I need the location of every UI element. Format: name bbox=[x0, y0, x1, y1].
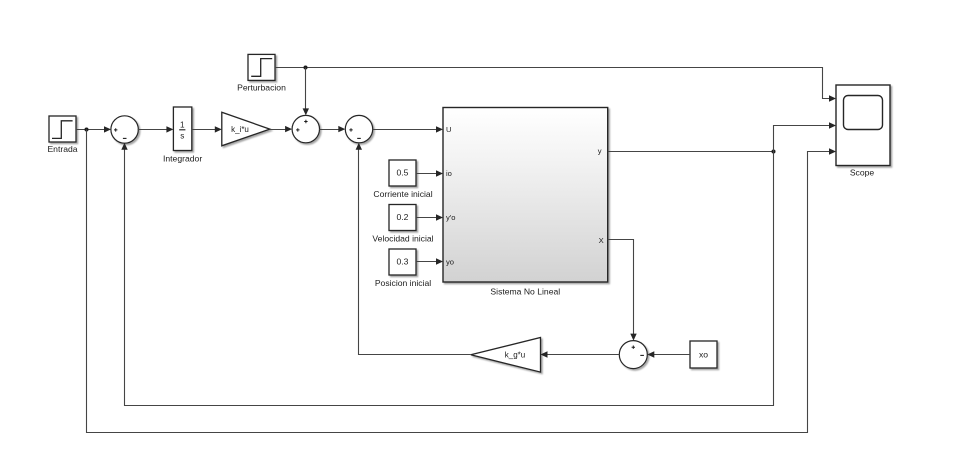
svg-text:Entrada: Entrada bbox=[47, 144, 77, 154]
svg-text:0.3: 0.3 bbox=[397, 257, 409, 267]
junction node after Entrada bbox=[85, 128, 89, 132]
svg-text:k_i*u: k_i*u bbox=[231, 125, 249, 134]
sum junction Sum2 bbox=[292, 115, 319, 142]
wire Sum3 to subsystem port U bbox=[373, 126, 443, 132]
wire gain k_i*u to Sum2 bbox=[270, 126, 292, 132]
svg-text:Posicion inicial: Posicion inicial bbox=[375, 278, 431, 288]
wire 0.5 to port io bbox=[416, 170, 443, 176]
scope block Scope bbox=[836, 85, 890, 166]
gain block k_g*u bbox=[471, 338, 541, 373]
svg-text:y'o: y'o bbox=[446, 213, 455, 222]
svg-text:k_g*u: k_g*u bbox=[505, 351, 525, 360]
integrator block Integrador (1/s) bbox=[173, 107, 191, 151]
wire gain k_g*u to Sum3 bottom bbox=[356, 143, 471, 355]
wire subsystem y output with junction bbox=[608, 151, 774, 153]
svg-text:Corriente inicial: Corriente inicial bbox=[373, 189, 432, 199]
sum junction Sum1 bbox=[111, 116, 138, 143]
svg-text:io: io bbox=[446, 169, 452, 178]
svg-text:Scope: Scope bbox=[850, 167, 875, 177]
wire Sum1 to Integrador bbox=[138, 126, 174, 132]
svg-text:X: X bbox=[599, 236, 604, 245]
svg-text:y: y bbox=[598, 147, 602, 156]
wire y branch up to Scope port2 bbox=[774, 122, 837, 151]
step source Perturbacion bbox=[248, 54, 275, 80]
junction node Perturbacion branch bbox=[304, 66, 308, 70]
wire 0.3 to port yo bbox=[416, 258, 443, 264]
constant block 0.5 bbox=[389, 160, 416, 186]
step source Entrada bbox=[49, 116, 76, 142]
wire Entrada feedback to Scope port3 bbox=[87, 129, 837, 432]
wire Perturbacion to Scope port1 bbox=[275, 68, 836, 102]
wire subsystem X output to Sum4 bbox=[608, 240, 637, 341]
constant block xo bbox=[690, 341, 717, 368]
gain block k_i*u bbox=[222, 112, 270, 146]
svg-text:yo: yo bbox=[446, 257, 454, 266]
svg-text:U: U bbox=[446, 125, 451, 134]
svg-text:s: s bbox=[180, 131, 184, 140]
svg-text:0.5: 0.5 bbox=[397, 168, 409, 178]
wire Sum4 to gain k_g*u bbox=[541, 351, 620, 357]
svg-text:0.2: 0.2 bbox=[397, 212, 409, 222]
svg-text:Velocidad inicial: Velocidad inicial bbox=[372, 233, 433, 243]
wire Integrador to gain k_i*u bbox=[192, 126, 222, 132]
constant block 0.3 bbox=[389, 249, 416, 275]
svg-text:Sistema No Lineal: Sistema No Lineal bbox=[490, 287, 560, 297]
svg-text:1: 1 bbox=[180, 121, 185, 130]
wire y branch feedback down to Sum1 bbox=[121, 143, 773, 406]
junction node y output bbox=[772, 150, 776, 154]
wire 0.2 to port y'o bbox=[416, 214, 443, 220]
wire xo to Sum4 bbox=[647, 351, 690, 357]
svg-text:Perturbacion: Perturbacion bbox=[237, 83, 286, 93]
svg-text:xo: xo bbox=[699, 350, 708, 360]
sum junction Sum4 bbox=[619, 341, 647, 369]
svg-text:Integrador: Integrador bbox=[163, 153, 202, 163]
wire Entrada to Sum1 bbox=[76, 126, 111, 132]
sum junction Sum3 bbox=[345, 115, 372, 142]
constant block 0.2 bbox=[389, 205, 416, 231]
wire Sum2 to Sum3 bbox=[320, 126, 346, 132]
wire Perturbacion branch to Sum2 top bbox=[303, 68, 309, 116]
subsystem block Sistema No Lineal bbox=[443, 108, 608, 283]
